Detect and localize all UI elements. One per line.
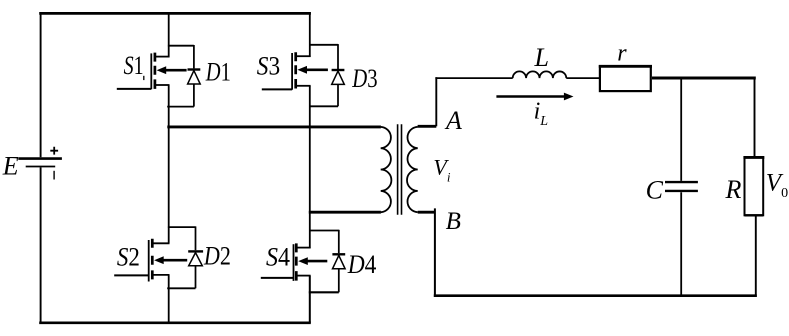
transistor S3 gate lead [262, 88, 292, 90]
transistor S3 body arrow [305, 69, 328, 72]
transistor S1 gate bar [150, 53, 152, 89]
wire D3 bottom branch [309, 105, 338, 107]
wire capacitor C bottom lead [680, 192, 682, 297]
wire left rail lower [40, 167, 42, 324]
transformer core [398, 124, 402, 215]
svg-text:A: A [444, 106, 462, 135]
wire secondary bottom lead [418, 211, 436, 214]
wire secondary top to inductor [435, 77, 512, 79]
wire top rail [39, 12, 311, 15]
wire D1 top branch [168, 45, 194, 47]
transistor S1 source stub [155, 84, 170, 86]
wire D4 anode lead [338, 269, 340, 293]
wire secondary top lead [418, 125, 437, 128]
wire D4 top branch [309, 230, 339, 232]
wire D2 anode lead [195, 266, 197, 289]
battery minus tick [53, 171, 55, 180]
transistor S3 drain stub [295, 55, 310, 57]
arrow iL [496, 95, 566, 98]
wire D1 bottom branch [167, 106, 194, 108]
transistor S1 drain stub [155, 56, 170, 58]
transistor S4 body arrow [306, 260, 328, 263]
wire D2 top branch [168, 226, 196, 228]
resistor R thick top edge [743, 156, 764, 159]
diode D4 cathode bar [332, 253, 345, 255]
transistor S4 channel segments [295, 243, 298, 280]
battery E bottom plate [26, 166, 56, 168]
transistor S3 source stub [295, 85, 310, 87]
wire D3 cathode lead [337, 44, 339, 69]
transistor S2 source stub [152, 274, 170, 276]
transformer primary winding [381, 127, 392, 212]
transistor S2 channel segments [151, 239, 154, 280]
svg-text:R: R [725, 175, 742, 204]
transistor S4 gate lead [261, 277, 294, 279]
transistor S4 source stub [296, 275, 311, 277]
resistor R bottom edge [745, 214, 764, 216]
resistor r thick top edge [599, 65, 652, 68]
diode D2 triangle [189, 253, 203, 266]
wire r to load node (thick) [652, 77, 756, 80]
wire leg A lower (S2 source to bottom rail) [168, 275, 170, 323]
wire leg A upper (S1 drain from top rail) [168, 12, 170, 57]
label S1 tick [143, 76, 145, 80]
resistor r box [600, 66, 651, 91]
capacitor C bottom plate [665, 190, 698, 192]
wire bottom rail [39, 321, 311, 324]
diode D2 cathode bar [188, 250, 203, 252]
wire left rail upper [40, 12, 42, 157]
wire D2 bottom branch [167, 287, 195, 289]
svg-text:S2: S2 [117, 242, 140, 271]
svg-text:r: r [617, 41, 627, 67]
wire capacitor C top lead [680, 78, 682, 181]
svg-text:D4: D4 [347, 250, 377, 279]
wire D2 cathode lead [195, 226, 197, 250]
wire load branch down [754, 78, 756, 157]
wire leg A middle (S1 source to S2 drain) [168, 85, 170, 243]
wire leg B upper (S3 drain from top rail) [309, 12, 311, 57]
svg-text:D1: D1 [205, 58, 231, 87]
svg-text:S3: S3 [257, 52, 280, 81]
wire R bottom lead [755, 216, 757, 297]
wire D4 bottom branch [309, 291, 339, 293]
wire D4 cathode lead [338, 230, 340, 253]
diode D1 triangle [188, 71, 201, 84]
svg-text:B: B [446, 208, 461, 235]
wire leg B middle (S3 source to S4 drain, crosses mid rail) [309, 86, 311, 248]
wire node B stub [434, 208, 436, 297]
transistor S4 drain stub [296, 247, 311, 249]
wire D1 anode lead [193, 84, 195, 107]
transistor S3 gate bar [291, 53, 293, 90]
resistor R box [745, 157, 764, 215]
svg-text:L: L [534, 43, 549, 72]
capacitor C top plate [665, 181, 698, 183]
svg-text:C: C [646, 175, 664, 204]
battery E top plate [18, 157, 62, 160]
diode D4 triangle [333, 255, 346, 268]
transistor S1 channel segments [154, 53, 157, 89]
transformer secondary winding [407, 127, 418, 212]
transistor S2 body arrow [162, 259, 188, 262]
transistor S1 body arrow [164, 69, 187, 72]
transistor S2 gate lead [114, 274, 149, 276]
wire transformer primary bottom lead [309, 211, 381, 214]
svg-text:E: E [2, 152, 19, 181]
transistor S1 gate lead [117, 88, 152, 90]
wire node A stub [435, 77, 437, 126]
diode D3 cathode bar [332, 69, 345, 71]
battery plus sign [50, 147, 58, 155]
wire D1 cathode lead [193, 45, 195, 68]
inductor L [513, 71, 567, 78]
wire inductor to resistor r [566, 77, 599, 79]
svg-text:D2: D2 [203, 242, 231, 271]
transistor S2 drain stub [152, 242, 170, 244]
svg-text:S1: S1 [124, 51, 144, 80]
transistor S3 channel segments [294, 52, 297, 88]
svg-text:D3: D3 [352, 64, 378, 93]
transistor S4 gate bar [293, 244, 295, 281]
wire leg B lower (S4 source to bottom rail) [309, 276, 311, 323]
wire D3 anode lead [337, 84, 339, 106]
wire D3 top branch [309, 44, 338, 46]
transistor S2 gate bar [148, 240, 150, 282]
wire mid rail (bridge left leg to transformer primary top) [167, 125, 381, 128]
wire bottom return (secondary side) [434, 294, 757, 297]
svg-text:S4: S4 [266, 242, 290, 271]
diode D3 triangle [332, 71, 345, 84]
diode D1 cathode bar [188, 68, 201, 70]
